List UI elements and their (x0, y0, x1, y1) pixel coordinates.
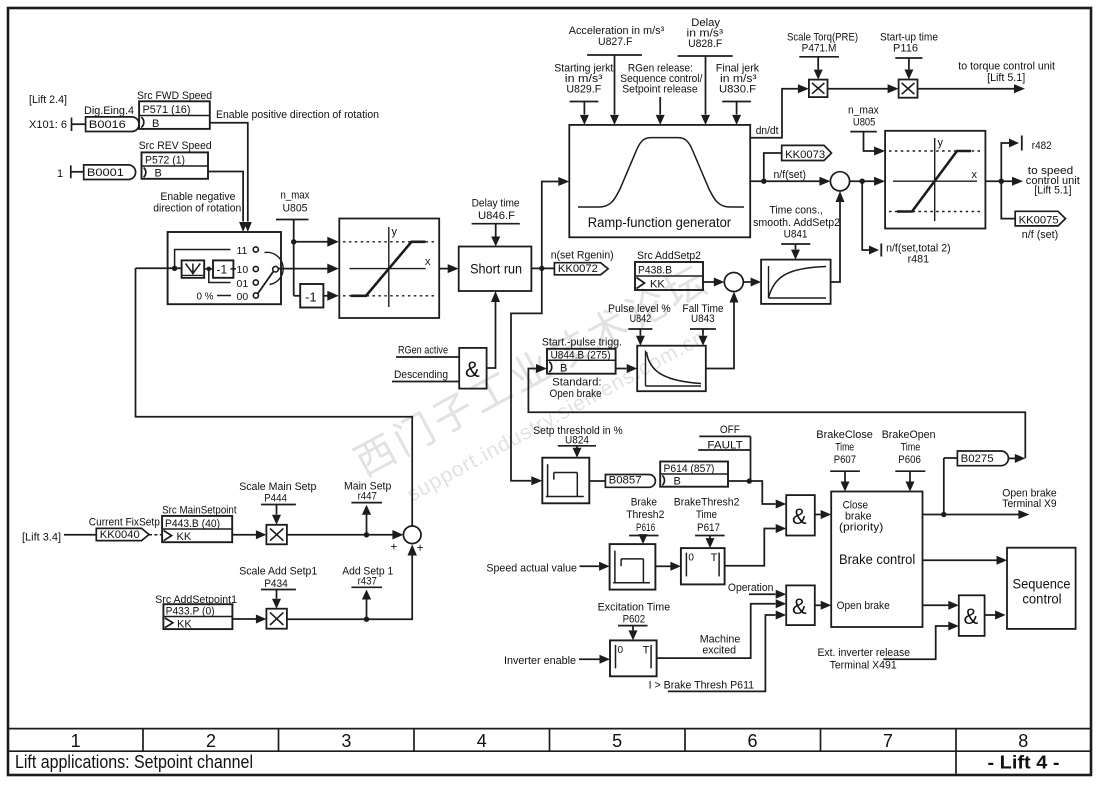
svg-text:OFF: OFF (720, 424, 740, 436)
svg-text:Src MainSetpoint: Src MainSetpoint (162, 505, 237, 517)
svg-text:U830.F: U830.F (719, 83, 756, 95)
terminal tick X101 (71, 118, 73, 132)
svg-text:Current FixSetp: Current FixSetp (89, 516, 160, 528)
svg-text:U842: U842 (630, 313, 652, 325)
wire limiter1 to Short run (439, 268, 448, 270)
svg-text:Dig.Eing.4: Dig.Eing.4 (84, 105, 134, 117)
svg-text:Short run: Short run (470, 261, 522, 277)
svg-text:U846.F: U846.F (478, 210, 515, 222)
wire 11 row (175, 250, 231, 269)
svg-text:n(set Rgenin): n(set Rgenin) (551, 250, 614, 262)
svg-text:10: 10 (237, 264, 249, 276)
svg-text:r482: r482 (1032, 140, 1052, 152)
summing circle S1 (403, 526, 421, 544)
svg-text:U828.F: U828.F (688, 38, 722, 50)
svg-text:B: B (674, 475, 681, 487)
svg-text:P433.P (0): P433.P (0) (166, 605, 215, 617)
terminal tick B0001 (70, 165, 72, 178)
svg-text:dn/dt: dn/dt (756, 125, 779, 137)
svg-text:P616: P616 (636, 522, 655, 534)
svg-text:P434: P434 (264, 578, 288, 590)
svg-text:r447: r447 (358, 491, 377, 503)
svg-text:5: 5 (612, 731, 622, 751)
svg-text:Brake control: Brake control (839, 551, 915, 567)
svg-text:Time: Time (835, 441, 854, 453)
wire KK0040 to P443 (dashed) (149, 534, 162, 536)
summing circle S2 (830, 172, 849, 191)
binector B0001 (84, 165, 136, 180)
wire REV enable to switch (208, 172, 243, 222)
wire Short run to RFG (542, 182, 559, 269)
svg-text:P438.B: P438.B (638, 265, 672, 277)
svg-text:KK0075: KK0075 (1019, 214, 1059, 226)
parameter P614 (857) (660, 462, 728, 487)
svg-text:n_max: n_max (848, 105, 879, 117)
svg-text:P607: P607 (834, 454, 856, 466)
svg-text:Enable negative: Enable negative (160, 191, 235, 203)
svg-text:- Lift 4 -: - Lift 4 - (988, 753, 1060, 773)
svg-text:P614 (857): P614 (857) (664, 463, 715, 475)
svg-text:n_max: n_max (281, 190, 310, 202)
svg-text:Scale Add Setp1: Scale Add Setp1 (239, 566, 317, 578)
wire S2 to limiter2 (850, 180, 875, 182)
wire 01 row (209, 269, 231, 283)
multiplier X2 (899, 80, 918, 98)
svg-text:1: 1 (71, 731, 81, 751)
svg-text:Src REV Speed: Src REV Speed (139, 140, 212, 152)
svg-text:n/f(set): n/f(set) (774, 169, 807, 181)
svg-text:BrakeOpen: BrakeOpen (882, 429, 936, 441)
svg-text:2: 2 (206, 731, 216, 751)
watermark (348, 258, 736, 521)
multiplier Xb2 (266, 609, 287, 629)
svg-text:I > Brake Thresh P611: I > Brake Thresh P611 (649, 680, 755, 692)
wire P433 to Xb2 (232, 618, 256, 620)
svg-text:n/f (set): n/f (set) (1022, 229, 1058, 241)
svg-text:RGen active: RGen active (398, 345, 448, 357)
switch selector arc (265, 252, 284, 284)
direction switch block (168, 232, 281, 304)
svg-text:KK0040: KK0040 (100, 529, 140, 541)
svg-text:B: B (152, 118, 159, 130)
svg-text:to torque control unit: to torque control unit (958, 61, 1055, 73)
minimum-selection box (182, 260, 205, 277)
svg-text:B: B (155, 168, 162, 180)
svg-text:P471.M: P471.M (802, 42, 837, 54)
svg-text:P572 (1): P572 (1) (145, 155, 185, 167)
inverter -1 box (switch) (213, 260, 233, 277)
timer block P617 (681, 548, 725, 584)
wire P438 to S3 (703, 281, 714, 283)
svg-text:P444: P444 (264, 493, 287, 505)
svg-text:Descending: Descending (394, 369, 448, 381)
wire dn/dt to multiplier (750, 89, 798, 138)
wire P614 to AND1 (728, 481, 776, 504)
limiter block 2 (885, 131, 985, 229)
wire timer1 to AND1 (725, 529, 776, 566)
block Ramp-function generator (569, 125, 750, 237)
svg-text:Operation: Operation (728, 582, 774, 594)
svg-text:Excitation Time: Excitation Time (598, 602, 671, 614)
svg-text:x: x (425, 256, 431, 268)
svg-text:BrakeThresh2: BrakeThresh2 (674, 497, 740, 509)
wire S2 down to r481 (862, 181, 869, 250)
svg-text:U805: U805 (283, 203, 308, 215)
multiplier X1 (809, 80, 828, 98)
svg-text:P602: P602 (623, 614, 646, 626)
svg-text:U827.F: U827.F (598, 36, 633, 48)
svg-text:1: 1 (57, 168, 63, 180)
svg-text:&: & (465, 357, 480, 382)
svg-text:Open brake: Open brake (550, 388, 602, 400)
svg-text:y: y (938, 137, 944, 149)
svg-text:KK0072: KK0072 (558, 263, 598, 275)
wire decay to S3 (706, 302, 734, 369)
wire AND3 to sequence control (985, 614, 996, 616)
decay block (start pulse shaper) (637, 346, 706, 392)
svg-text:U843: U843 (691, 313, 715, 325)
svg-text:Sequence: Sequence (1013, 576, 1071, 591)
wire AND to Short run (487, 302, 496, 368)
svg-text:r437: r437 (358, 575, 377, 587)
svg-text:KK: KK (177, 531, 192, 543)
svg-text:&: & (792, 504, 807, 529)
svg-text:7: 7 (883, 731, 893, 751)
svg-text:11: 11 (237, 245, 248, 257)
svg-text:U829.F: U829.F (566, 83, 601, 95)
svg-text:KK: KK (650, 279, 665, 291)
svg-text:B0001: B0001 (87, 167, 124, 179)
summing circle S3 (724, 273, 743, 292)
AND gate U1 (RGen) (459, 348, 486, 389)
wire P443 to Xb1 (232, 534, 256, 536)
wire n_max to limiter2 (864, 132, 875, 151)
wire limiter2 output (985, 180, 1012, 182)
wire switch output (278, 268, 327, 270)
wire AND2 to Brake control (815, 604, 821, 606)
svg-text:smooth. AddSetp2: smooth. AddSetp2 (753, 217, 840, 229)
smoothing block U841 (761, 260, 831, 304)
AND gate 2 (786, 585, 815, 625)
svg-text:Time cons.,: Time cons., (769, 205, 822, 217)
block Brake control (831, 492, 922, 628)
svg-text:direction of rotation: direction of rotation (153, 203, 241, 215)
svg-text:P443.B (40): P443.B (40) (165, 518, 220, 530)
svg-text:3: 3 (341, 731, 351, 751)
binector B0857 (605, 475, 655, 488)
wire feedback into U844 B (536, 364, 547, 373)
AND gate 1 (786, 495, 815, 535)
svg-text:KK: KK (177, 618, 192, 630)
svg-text:[Lift 3.4]: [Lift 3.4] (22, 531, 61, 543)
svg-text:Delay time: Delay time (472, 198, 520, 210)
svg-text:Inverter enable: Inverter enable (504, 655, 576, 667)
svg-text:U844.B (275): U844.B (275) (551, 349, 611, 361)
wire setpoint into switch (136, 267, 182, 269)
svg-text:P617: P617 (697, 522, 720, 534)
svg-text:Brake: Brake (631, 497, 657, 509)
block Short run (459, 247, 532, 292)
wire RFG output n/f(set) (750, 180, 820, 182)
svg-text:&: & (792, 594, 807, 619)
svg-text:T: T (643, 644, 650, 656)
svg-text:P606: P606 (898, 454, 921, 466)
wire smoothing to S2 (831, 202, 840, 282)
svg-text:brake: brake (845, 510, 872, 522)
limiter block 1 (339, 219, 439, 319)
svg-text:y: y (392, 226, 398, 238)
svg-text:Open brake: Open brake (837, 600, 890, 612)
svg-text:Time: Time (696, 509, 717, 521)
svg-text:Machine: Machine (700, 633, 741, 645)
block Sequence control (1007, 548, 1076, 629)
wire 10 row (231, 268, 234, 270)
svg-text:P116: P116 (893, 42, 918, 54)
svg-text:Standard:: Standard: (552, 377, 602, 389)
svg-text:Src FWD Speed: Src FWD Speed (137, 90, 212, 102)
wire Short run to Setp threshold (511, 268, 542, 480)
svg-text:Terminal X9: Terminal X9 (1002, 498, 1056, 510)
wire Xb1 to sum S1 (287, 534, 395, 536)
svg-text:Time: Time (901, 441, 921, 453)
inverter -1 box (n_max) (294, 295, 301, 297)
svg-text:control: control (1022, 591, 1061, 606)
wire brake control to sequence control (923, 559, 997, 561)
svg-text:U805: U805 (853, 117, 876, 129)
svg-text:+: + (391, 542, 398, 554)
svg-text:&: & (964, 604, 979, 629)
svg-text:Lift applications: Setpoint ch: Lift applications: Setpoint channel (15, 752, 253, 772)
timer block P602 (610, 640, 657, 676)
svg-text:Ext. inverter release: Ext. inverter release (818, 647, 911, 659)
svg-text:excited: excited (702, 645, 736, 657)
wire n_max to limiter (293, 220, 295, 296)
svg-text:Ramp-function generator: Ramp-function generator (588, 215, 732, 230)
svg-text:U841: U841 (784, 229, 808, 241)
multiplier Xb1 (266, 525, 287, 545)
hysteresis block Brake Thresh2 (610, 544, 656, 590)
svg-text:B0275: B0275 (961, 453, 994, 465)
svg-text:0 %: 0 % (197, 290, 214, 302)
svg-text:B: B (560, 362, 567, 374)
svg-text:X101: 6: X101: 6 (29, 119, 67, 131)
wire to timer1 (655, 565, 670, 567)
svg-text:00: 00 (237, 291, 249, 303)
footer table (8, 728, 1091, 730)
wire S3 to smoothing (743, 281, 750, 283)
wire close brake output / Terminal X9 (923, 514, 1019, 516)
wire X1 to X2 (828, 88, 889, 90)
wire Xb2 to sum S1 (287, 556, 412, 620)
wire to r482 (1001, 143, 1009, 181)
wire Short run output (531, 267, 554, 269)
AND gate 3 (959, 595, 985, 636)
svg-text:r481: r481 (908, 254, 930, 266)
wire AND1 to Brake control (815, 514, 821, 516)
wire to -1 box (204, 268, 213, 270)
switch wiper arm (258, 272, 274, 295)
svg-text:x: x (972, 169, 978, 181)
svg-text:01: 01 (237, 278, 249, 290)
connector KK0075 (1001, 181, 1015, 218)
svg-text:[Lift 5.1]: [Lift 5.1] (987, 72, 1025, 84)
connector KK0073 (764, 153, 782, 181)
svg-text:Src AddSetp2: Src AddSetp2 (637, 250, 701, 262)
wire Setp block output (589, 480, 605, 482)
svg-text:-1: -1 (217, 263, 228, 277)
svg-text:B0857: B0857 (609, 475, 642, 487)
svg-text:-1: -1 (305, 290, 317, 305)
svg-text:Terminal X491: Terminal X491 (830, 660, 897, 672)
svg-text:Speed actual value: Speed actual value (486, 563, 577, 575)
svg-text:8: 8 (1018, 731, 1028, 751)
svg-text:[Lift 5.1]: [Lift 5.1] (1034, 185, 1071, 197)
svg-text:Start.-pulse trigg.: Start.-pulse trigg. (542, 337, 622, 349)
svg-text:(priority): (priority) (839, 522, 883, 534)
svg-text:4: 4 (477, 731, 487, 751)
wire U844 to decay block (616, 368, 627, 370)
svg-text:Scale Main Setp: Scale Main Setp (239, 481, 316, 493)
svg-text:+: + (417, 543, 424, 555)
svg-text:P571 (16): P571 (16) (143, 104, 191, 116)
hysteresis block Setp threshold (542, 458, 589, 504)
svg-text:[Lift 2.4]: [Lift 2.4] (29, 94, 67, 106)
wire to torque control unit (918, 88, 1015, 90)
svg-text:0: 0 (618, 645, 624, 656)
wire open brake to AND3 (923, 604, 949, 606)
svg-text:6: 6 (748, 731, 758, 751)
svg-text:Enable positive direction of r: Enable positive direction of rotation (216, 109, 379, 121)
binector B0275 (943, 458, 945, 515)
svg-text:KK0073: KK0073 (785, 149, 825, 161)
svg-text:Thresh2: Thresh2 (626, 509, 664, 521)
svg-text:U824: U824 (565, 434, 589, 446)
svg-text:0: 0 (688, 553, 694, 564)
svg-text:BrakeClose: BrakeClose (816, 429, 873, 441)
wire sum to direction switch (136, 268, 413, 526)
svg-text:B0016: B0016 (89, 119, 126, 131)
svg-text:Setpoint release: Setpoint release (622, 83, 698, 95)
wire open brake feedback (528, 369, 1025, 459)
svg-text:T: T (711, 552, 718, 564)
wire FWD enable to switch (210, 123, 248, 222)
